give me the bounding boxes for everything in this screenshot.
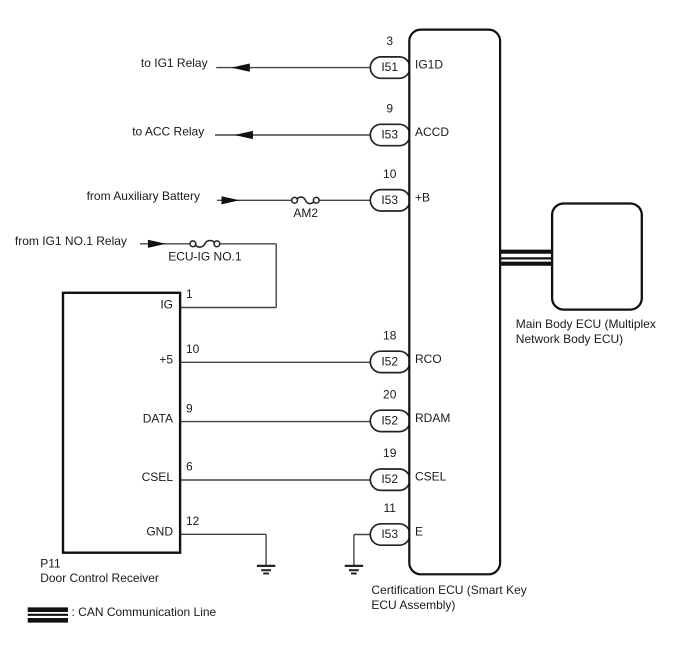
svg-text:ECU-IG NO.1: ECU-IG NO.1 xyxy=(168,250,242,264)
svg-text:19: 19 xyxy=(383,446,397,460)
svg-text:IG: IG xyxy=(160,298,173,312)
svg-text:I52: I52 xyxy=(381,413,398,427)
svg-text:GND: GND xyxy=(146,524,173,538)
svg-text:I52: I52 xyxy=(381,472,398,486)
svg-text:10: 10 xyxy=(186,342,200,356)
svg-text:to ACC Relay: to ACC Relay xyxy=(132,125,204,139)
svg-text:10: 10 xyxy=(383,167,397,181)
svg-text:IG1D: IG1D xyxy=(415,58,443,72)
svg-text:1: 1 xyxy=(186,287,193,301)
svg-text:DATA: DATA xyxy=(143,412,173,426)
svg-text:ACCD: ACCD xyxy=(415,125,449,139)
svg-text:+B: +B xyxy=(415,190,430,204)
svg-text:I52: I52 xyxy=(381,354,398,368)
svg-text:to IG1 Relay: to IG1 Relay xyxy=(141,56,208,70)
svg-text:: CAN Communication Line: : CAN Communication Line xyxy=(72,605,217,619)
svg-text:E: E xyxy=(415,525,423,539)
svg-text:from IG1 NO.1 Relay: from IG1 NO.1 Relay xyxy=(15,234,127,248)
svg-text:I53: I53 xyxy=(381,527,398,541)
svg-text:RDAM: RDAM xyxy=(415,411,450,425)
svg-text:I53: I53 xyxy=(381,193,398,207)
svg-text:P11: P11 xyxy=(40,557,61,571)
svg-text:11: 11 xyxy=(383,501,396,515)
svg-text:RCO: RCO xyxy=(415,352,442,366)
svg-text:Main Body ECU (Multiplex: Main Body ECU (Multiplex xyxy=(516,317,656,331)
svg-text:9: 9 xyxy=(386,102,393,116)
svg-text:Network Body ECU): Network Body ECU) xyxy=(516,332,623,346)
svg-text:6: 6 xyxy=(186,460,193,474)
svg-text:Door Control Receiver: Door Control Receiver xyxy=(40,571,159,585)
svg-text:12: 12 xyxy=(186,514,200,528)
svg-text:from Auxiliary Battery: from Auxiliary Battery xyxy=(87,189,200,203)
svg-text:+5: +5 xyxy=(159,352,173,366)
svg-text:20: 20 xyxy=(383,387,397,401)
svg-text:Certification ECU (Smart Key: Certification ECU (Smart Key xyxy=(371,583,526,597)
svg-text:9: 9 xyxy=(186,401,193,415)
svg-text:I51: I51 xyxy=(381,60,398,74)
svg-text:18: 18 xyxy=(383,328,397,342)
svg-text:ECU Assembly): ECU Assembly) xyxy=(371,598,455,612)
svg-text:AM2: AM2 xyxy=(293,206,318,220)
svg-text:I53: I53 xyxy=(381,128,398,142)
svg-text:3: 3 xyxy=(386,34,393,48)
svg-text:CSEL: CSEL xyxy=(415,470,447,484)
svg-text:CSEL: CSEL xyxy=(142,470,174,484)
